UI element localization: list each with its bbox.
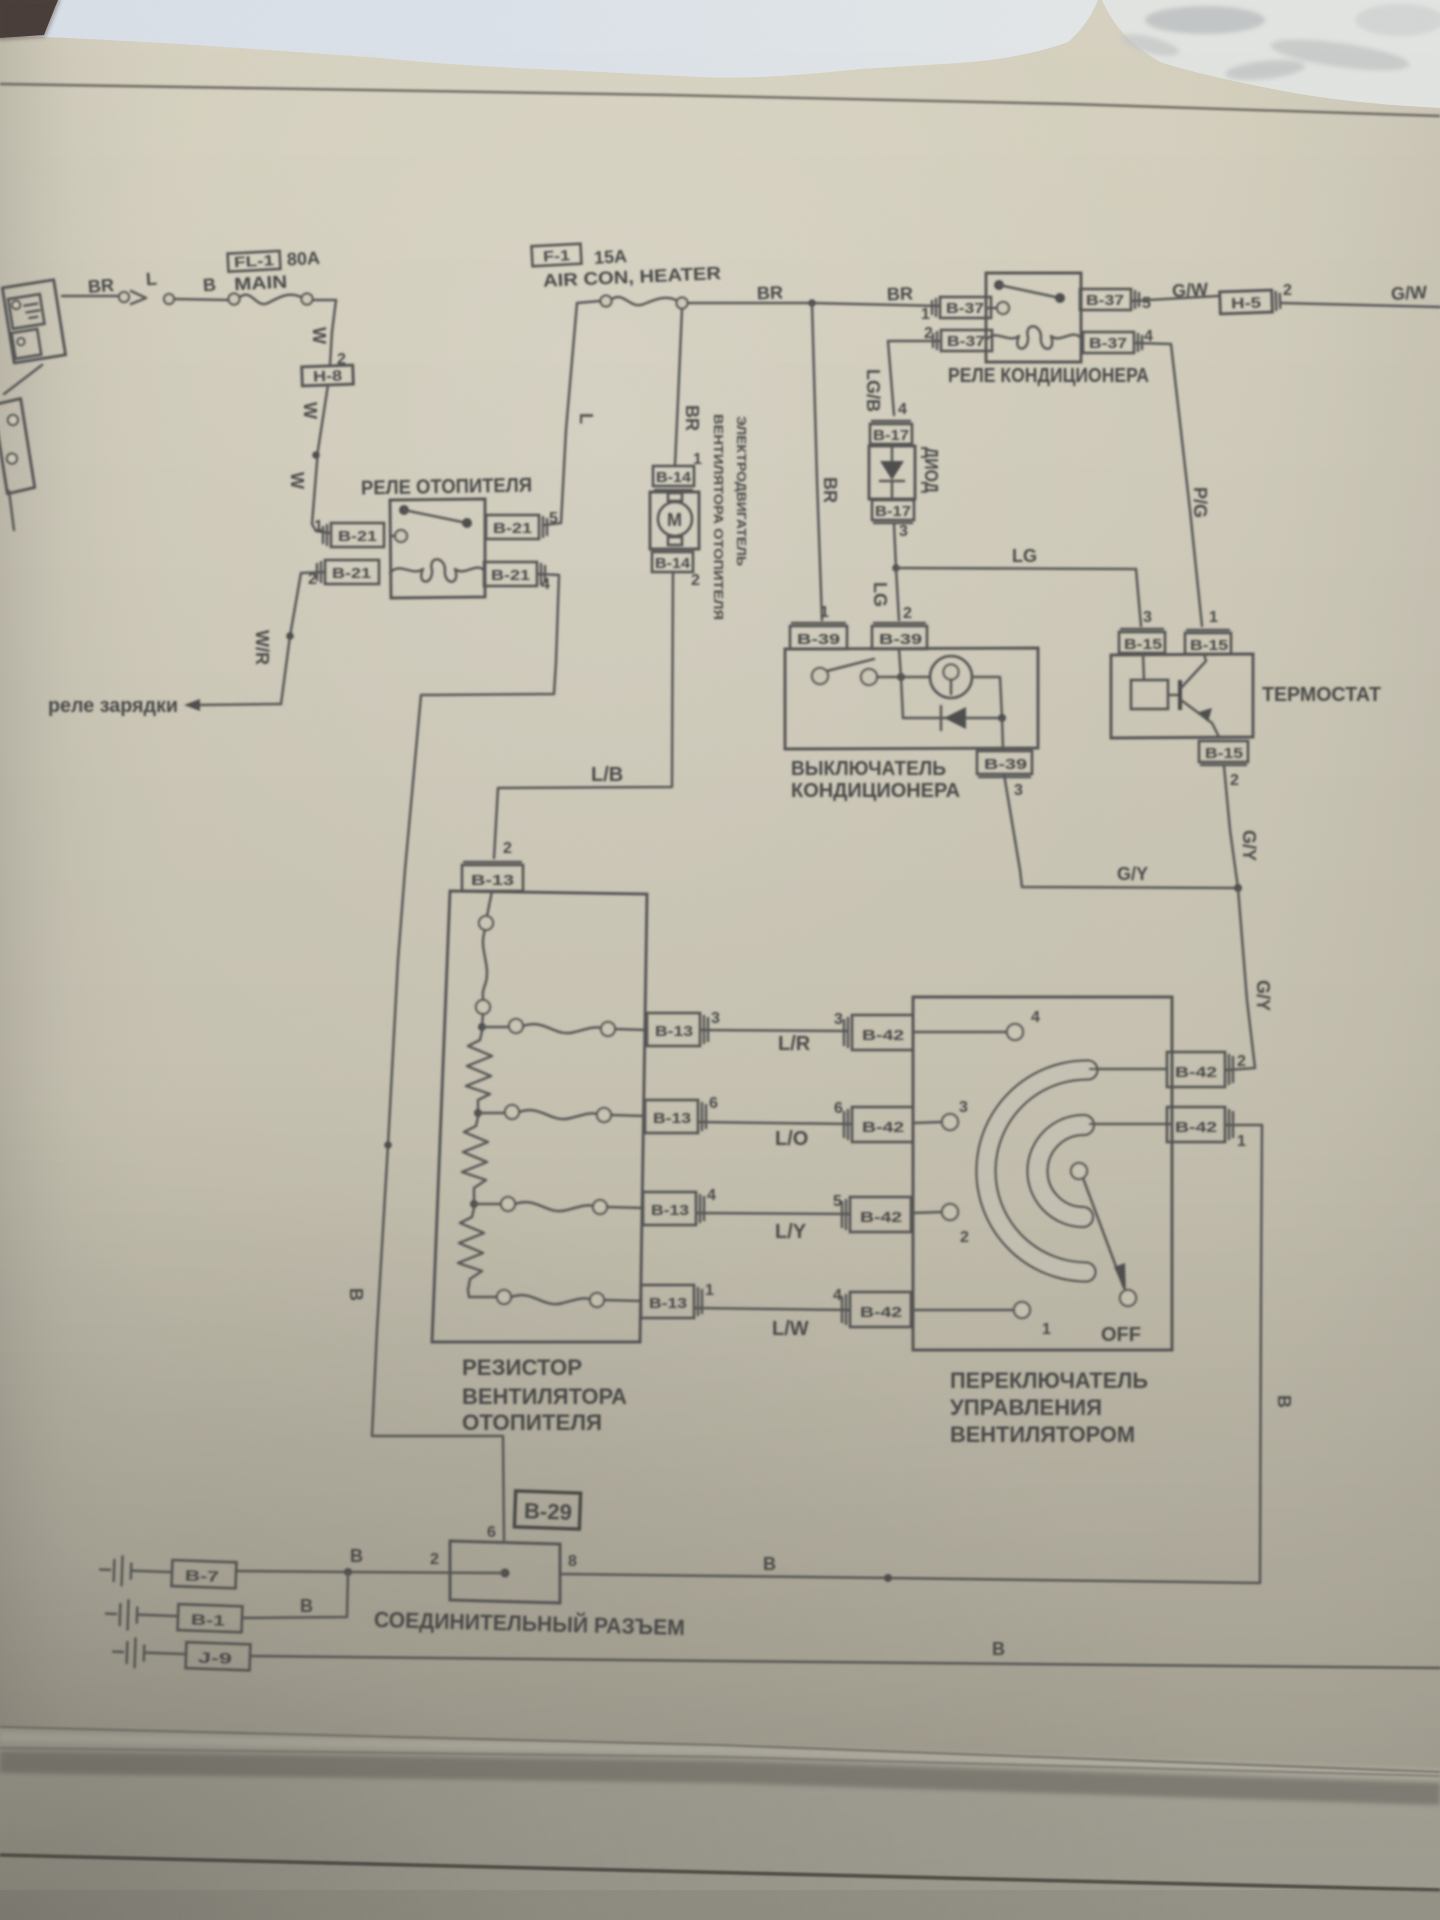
ground J-9: [113, 1638, 251, 1672]
wire to fusible link: [174, 299, 228, 300]
wire B-13 pin1 to B-42 (net L/W): [694, 1308, 850, 1310]
junction inside connector: [501, 1569, 510, 1578]
rotary pivot: [1071, 1163, 1087, 1179]
thermostat body: [1111, 654, 1253, 738]
A/C switch body: [785, 648, 1038, 749]
connector B-15 pin 3: [1119, 629, 1165, 653]
tap 2 wavy link: [478, 1112, 505, 1115]
connector B-21 pin 2: [317, 560, 379, 584]
relay armature contact: [399, 505, 409, 515]
wire B-37 pin2 to diode (net LG/B): [888, 341, 941, 415]
fuse F-1 AIR CON HEATER: [532, 244, 582, 267]
rotary track outer: [986, 1070, 1088, 1272]
dark table corner top-left: [0, 0, 58, 38]
wire LG junction down to A/C switch: [896, 568, 899, 620]
heater relay body: [390, 499, 485, 598]
wire motor to L/B run: [494, 572, 673, 858]
junction tap 1: [478, 1023, 486, 1031]
connector B-13 top (pin 2): [462, 862, 523, 891]
wire F-1 to A/C relay (net BR): [688, 303, 940, 306]
tap 3 wavy link: [474, 1203, 501, 1206]
tap 1 wavy link: [482, 1026, 509, 1029]
thermostat sensor square: [1131, 680, 1168, 709]
connector B-37 pin 5: [1080, 289, 1139, 310]
fuse F-1 element: [601, 296, 612, 307]
connector B-39 pin 3: [977, 751, 1032, 777]
connector B-42 pin 1 (right): [1167, 1107, 1233, 1142]
printed line on lower page (reinforced): [0, 1855, 1440, 1890]
connector H-8: [302, 365, 354, 386]
junction on W wire: [312, 451, 320, 459]
tap 4 wavy link: [497, 1290, 511, 1304]
connector B-13 pin 1: [641, 1285, 702, 1318]
connector H-5: [1220, 290, 1281, 314]
junction on B wire: [384, 1141, 392, 1149]
connector B-13 pin 3: [647, 1013, 708, 1046]
connector B-15 pin 1: [1185, 630, 1231, 654]
switch position contact 2: [912, 1212, 942, 1213]
wire H-5 to right edge (net G/W): [1282, 303, 1440, 307]
wire B-13 pin3 to B-42 (net L/R): [700, 1030, 848, 1031]
wire G/Y down to fan switch: [1227, 888, 1255, 1070]
connector B-17 top: [870, 421, 912, 444]
fusible link FL-1 MAIN 80A: [228, 248, 322, 295]
bottom: second page under the fold: [0, 1727, 1440, 1920]
connector B-37 pin 4: [1083, 332, 1142, 353]
wire B-42 pin1 down right side (net B): [562, 1125, 1262, 1583]
A/C relay body: [986, 273, 1081, 362]
crumpled cloth top right: [1102, 0, 1440, 108]
connector B-15 pin 2: [1199, 741, 1248, 765]
wire thermostat to G/Y junction (net G/Y): [1224, 766, 1238, 888]
junction BR: [808, 299, 816, 307]
wire B-13 pin4 to B-42 (net L/Y): [696, 1213, 850, 1214]
connector B-29 label box: [514, 1491, 580, 1529]
wire B-1 to junction (net B): [242, 1572, 348, 1618]
connector B-13 pin 4: [643, 1192, 704, 1225]
wire battery to lower block: [4, 365, 42, 394]
connector B-17 bottom: [872, 500, 914, 523]
junction inside switch: [998, 714, 1006, 722]
connector B-42 pin 4: [842, 1292, 911, 1327]
indicator lamp: [930, 656, 972, 698]
wire B-37 pin5 to H-5 (net G/W): [1131, 296, 1218, 301]
ground B-7: [100, 1556, 237, 1590]
wire fusible link to H-8: [313, 300, 336, 365]
junction inside switch: [897, 673, 905, 681]
inline connector circles: [119, 292, 129, 302]
connector B-37 pin 1: [932, 297, 991, 318]
heater fan motor: [650, 492, 699, 549]
switch position contact 4: [913, 1031, 1007, 1034]
wire diode to LG junction: [894, 524, 896, 568]
lower connector block (left edge): [0, 399, 35, 494]
battery and fuse block assembly (left edge): [2, 280, 65, 363]
junction connector box: [450, 1541, 560, 1603]
white paper sheet along the top: [0, 0, 1098, 78]
connector B-39 pin 2: [872, 623, 927, 649]
resistor feed wire: [479, 916, 493, 930]
heater fan motor feed wire (net BR): [675, 309, 682, 465]
switch position contact 1: [912, 1309, 1014, 1312]
wire inner track to B-42 pin 1: [1090, 1123, 1172, 1126]
junction tap 3: [470, 1200, 478, 1208]
wire F-1 left to L drop: [545, 301, 600, 525]
connector B-42 pin 5: [842, 1197, 911, 1232]
A/C relay coil: [986, 326, 1081, 348]
wire relay pin2 to W/R junction: [281, 572, 325, 704]
wire relay pin4 down to ground net B (long left drop): [372, 574, 559, 1540]
wire H-8 down to heater relay pin 1: [312, 385, 329, 533]
page border line: [0, 84, 1440, 116]
junction LG: [892, 564, 900, 572]
fan switch body: [913, 997, 1172, 1350]
connector B-42 pin 2 (right): [1167, 1052, 1233, 1087]
resistor element 2: [462, 1117, 488, 1202]
printed line on the page below: [0, 1855, 1440, 1890]
A/C relay armature: [994, 280, 1004, 290]
thermostat transistor: [1168, 694, 1180, 697]
photo shading overlays: [0, 0, 1, 1]
wire J-9 to right edge (net B): [250, 1656, 1440, 1668]
connector B-21 pin 5: [486, 515, 547, 539]
junction G/Y: [1234, 884, 1242, 892]
junction B left: [344, 1568, 352, 1576]
diode D1 body: [869, 446, 915, 499]
wire B-13 pin6 to B-42 (net L/O): [698, 1122, 850, 1124]
connector B-14 top: [653, 466, 694, 490]
lamp diode inside switch: [903, 717, 1002, 720]
rotary track inner: [1037, 1125, 1084, 1217]
connector B-42 pin 6: [844, 1107, 913, 1142]
wire B-37 pin4 to thermostat (net P/G): [1136, 343, 1202, 626]
connector B-21 pin 4: [484, 562, 545, 586]
wire through junction connector (net B): [236, 1571, 505, 1573]
wire outer track to B-42 pin 2: [1090, 1068, 1167, 1071]
wire BR down to A/C switch (net BR): [812, 303, 822, 620]
connector B-39 pin 1: [790, 623, 847, 649]
junction on W/R wire: [286, 632, 294, 640]
junction B: [884, 1574, 892, 1582]
blower resistor body: [432, 891, 647, 1342]
connector B-42 pin 3: [844, 1015, 913, 1050]
selector lever with arrow: [1083, 1178, 1124, 1288]
resistor element 3: [458, 1208, 497, 1297]
ground B-1: [106, 1600, 243, 1634]
connector B-21 pin 1: [323, 523, 384, 547]
switch position contact 3: [913, 1122, 942, 1123]
junction tap 2: [474, 1109, 482, 1117]
connector B-14 bottom: [652, 549, 693, 572]
connector B-37 pin 2: [933, 330, 992, 351]
wire below lower block: [9, 491, 14, 530]
switch contact: [812, 668, 828, 684]
resistor element 1: [466, 1031, 492, 1111]
connector B-13 pin 6: [645, 1100, 706, 1133]
wire A/C switch to G/Y junction: [1004, 774, 1238, 888]
wire battery output: [62, 295, 119, 298]
relay coil: [390, 559, 485, 581]
wire to charging relay with arrow: [198, 704, 281, 705]
wire LG junction to thermostat (net LG): [896, 568, 1141, 626]
